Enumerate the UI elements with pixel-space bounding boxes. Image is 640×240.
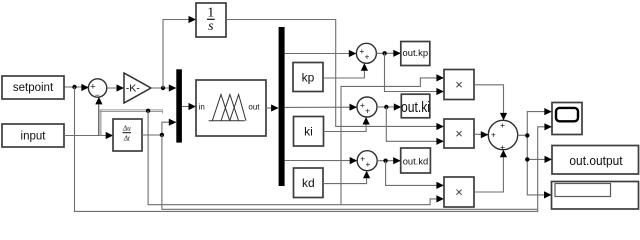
wire: sum3 to out.ki display [377, 103, 401, 110]
wire: demux out2 to sum3 [285, 104, 357, 111]
sum: sum3 (ki) [357, 97, 377, 117]
block: derivative du/dt [113, 119, 142, 151]
product: multiplier 1 [444, 70, 474, 100]
wire: big sum output to scope in1, out.output and display [518, 108, 552, 199]
wire: junction up to integrator input [163, 16, 196, 88]
wire: derivative output to mux input 2 [142, 119, 176, 135]
svg-text:Δt: Δt [123, 135, 131, 143]
product: multiplier 3 [444, 177, 474, 207]
wire: sum3 junction down to product2 input2 [386, 107, 444, 145]
sum: big output sum [488, 120, 517, 152]
wire: gray doubled horizontal line (input net) [100, 110, 163, 114]
svg-text:×: × [455, 184, 463, 199]
svg-text:Δu: Δu [122, 125, 131, 133]
wire: kd to sum4 bottom [323, 171, 370, 184]
wire: input net riser to product1 input1 [341, 74, 444, 204]
block: input source [2, 124, 64, 147]
svg-text:out: out [248, 103, 260, 112]
block: kd constant [294, 168, 324, 198]
node: junction dot on gray line [146, 109, 150, 113]
svg-text:+: + [365, 52, 370, 62]
svg-text:out.kd: out.kd [403, 155, 429, 166]
svg-text:out.output: out.output [569, 154, 623, 168]
wire: product3 output to big sum bottom [474, 150, 507, 192]
block: out.output [552, 146, 639, 175]
svg-text:s: s [208, 19, 214, 34]
svg-text:+: + [365, 105, 370, 115]
sum: sum1 error junction [88, 79, 106, 100]
svg-text:kp: kp [302, 70, 315, 84]
gain: -K- triangle [124, 73, 151, 103]
wire: demux out3 to sum4 [285, 157, 358, 164]
wire: sum2 junction down to product1 input2 [385, 53, 444, 95]
wire: gain output to mux input 1 [151, 84, 176, 91]
node: gain output junction dot [161, 86, 165, 90]
svg-text:kd: kd [302, 176, 315, 190]
block: integrator 1/s [196, 3, 226, 37]
svg-text:×: × [455, 77, 463, 92]
wire: sum2 to out.kp display [376, 50, 400, 57]
svg-text:input: input [21, 131, 47, 143]
wire: sum4 to out.kd display [377, 157, 401, 164]
wire: sum1 to gain [107, 84, 124, 91]
svg-text:-K-: -K- [126, 83, 141, 95]
block: out.ki display [401, 94, 430, 118]
block: kp constant [293, 63, 323, 92]
demux: black bar [279, 27, 285, 186]
mux: black bar [176, 69, 182, 142]
node: sum2 output dot [382, 51, 386, 55]
wire: kp to sum2 bottom [323, 63, 368, 78]
wire: fuzzy to demux [266, 104, 279, 111]
sum: sum2 (kp) [356, 43, 376, 63]
block: out.kp display [401, 42, 430, 66]
wire: from gray-line dot down along bottom to product3 input2 [148, 111, 444, 205]
svg-text:out.ki: out.ki [401, 99, 430, 116]
block: out.kd display [401, 148, 431, 173]
block: ki constant [294, 117, 324, 147]
svg-text:out.kp: out.kp [403, 47, 429, 58]
wire: derivative junction down along bottom (to scope column) [162, 135, 537, 209]
product: multiplier 2 [444, 119, 474, 148]
block: display [552, 182, 639, 210]
wire: integrator output down to product2 input1 [226, 20, 444, 131]
node: out.output branch dot [525, 157, 529, 161]
wire: demux out1 to sum2 [285, 50, 357, 57]
wire: sum4 junction down to product3 input1 [386, 161, 444, 189]
wire: setpoint feedback down and along bottom to scope input 2 [75, 87, 552, 211]
wire: input to derivative block [64, 132, 113, 139]
wire: setpoint to sum1 [64, 84, 89, 91]
svg-text:+: + [491, 130, 496, 140]
svg-text:ki: ki [304, 125, 313, 139]
svg-text:×: × [455, 126, 463, 141]
svg-text:−: − [95, 90, 100, 100]
block: setpoint source [2, 76, 64, 99]
svg-text:+: + [500, 142, 505, 152]
wire: input branch up to sum1 minus input [95, 97, 102, 136]
wire: product1 output to big sum top [474, 85, 507, 121]
node: big sum output dot [525, 133, 529, 137]
wire: ki to sum3 bottom [324, 117, 370, 132]
svg-text:+: + [500, 120, 505, 130]
svg-text:setpoint: setpoint [13, 82, 54, 94]
wire: product2 output to big sum left [474, 131, 488, 138]
node: sum3 output dot [384, 105, 388, 109]
wire: mux to fuzzy controller [182, 103, 196, 110]
block: scope [552, 103, 582, 135]
node: derivative output junction dot [160, 133, 164, 137]
node: setpoint junction dot [72, 85, 76, 89]
block: fuzzy logic controller [196, 80, 266, 136]
svg-text:+: + [365, 159, 370, 169]
sum: sum4 (kd) [357, 151, 377, 171]
node: sum4 output dot [383, 159, 387, 163]
svg-text:in: in [199, 103, 205, 112]
